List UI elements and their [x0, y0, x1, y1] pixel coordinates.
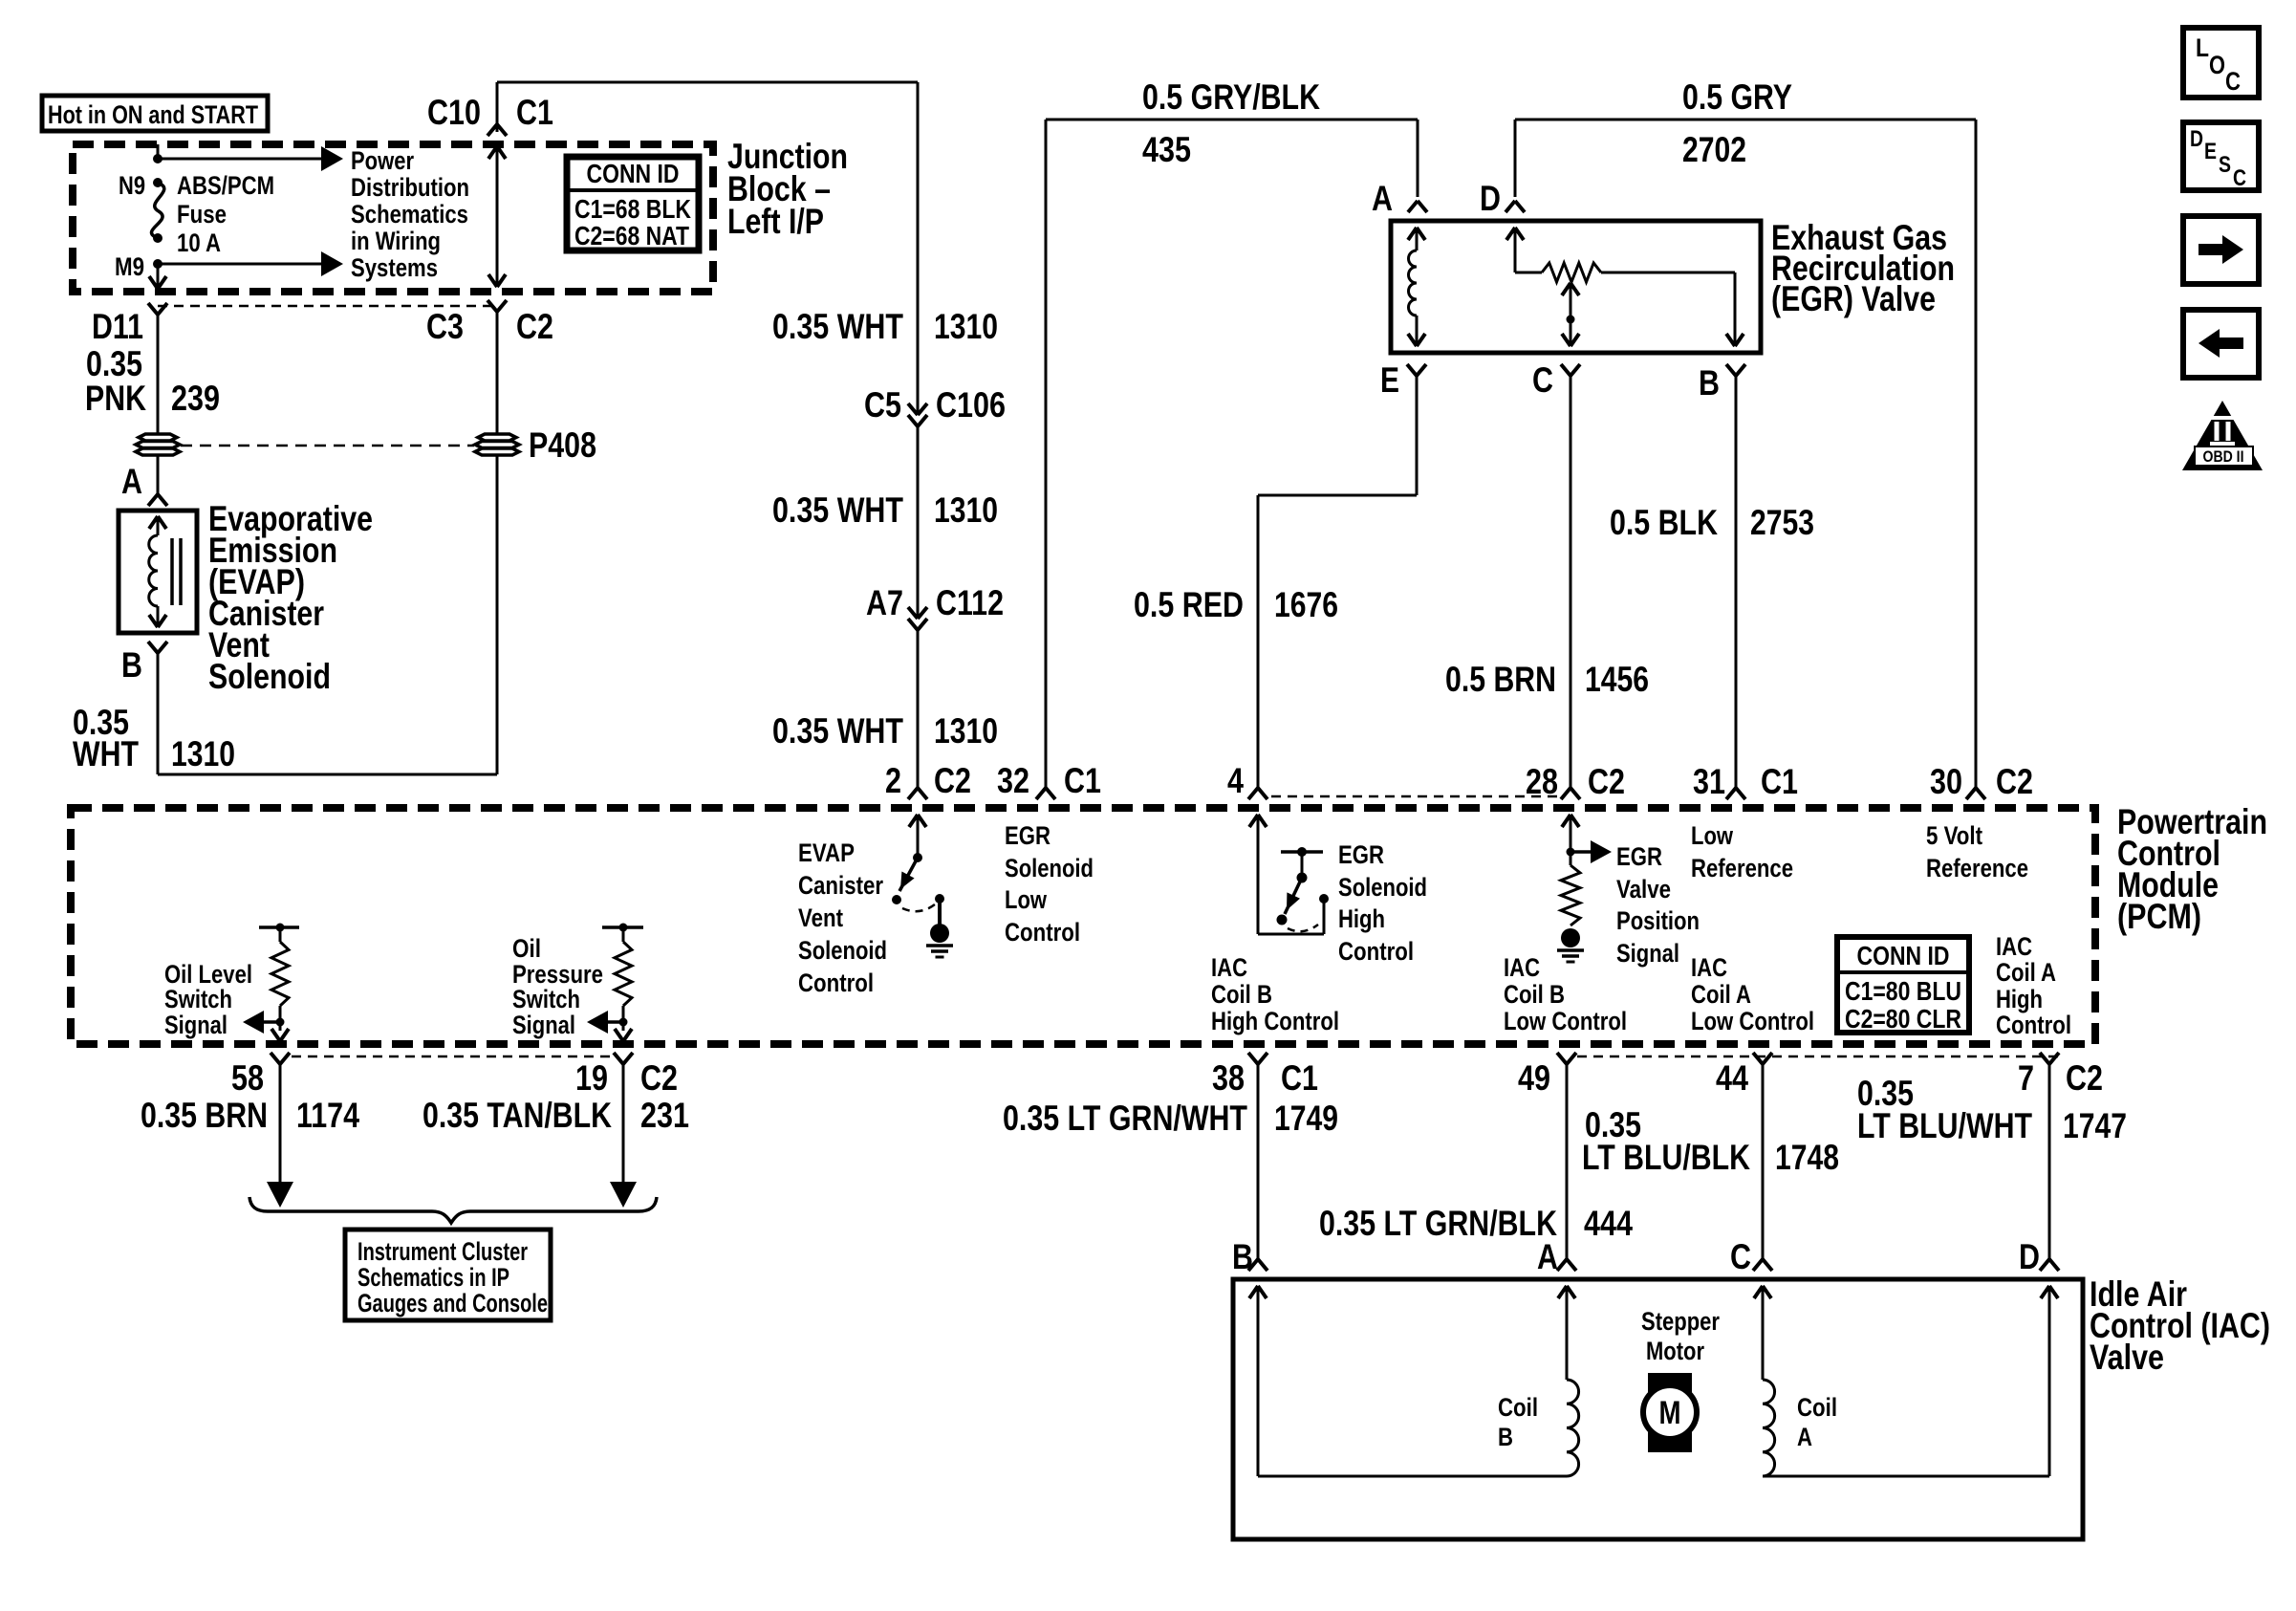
terminal E label [1380, 360, 1399, 400]
svg-text:C1: C1 [1761, 762, 1798, 801]
svg-text:1748: 1748 [1775, 1138, 1839, 1177]
PCM pin 19 labels [575, 1058, 678, 1098]
svg-text:(PCM): (PCM) [2117, 897, 2201, 936]
thin connector line pin58 to pin19 [292, 1056, 612, 1058]
svg-text:Reference: Reference [1926, 854, 2028, 882]
svg-text:P408: P408 [529, 425, 596, 465]
EVAP driver switch [892, 815, 944, 925]
wire WHT 1310 vertical (lower) [917, 630, 920, 788]
svg-text:EVAP: EVAP [798, 838, 855, 867]
label 0.5 BLK [1610, 503, 1718, 542]
label 0.5 GRY/BLK [1142, 77, 1320, 117]
svg-text:Control: Control [1996, 1011, 2071, 1039]
IAC coil B circuit [1249, 1286, 1579, 1476]
thin connector line pin49 to pin7 [1577, 1056, 2063, 1058]
terminal B (IAC) label [1232, 1237, 1253, 1276]
text Low Reference [1691, 821, 1793, 882]
terminal B label [121, 645, 142, 685]
EGR valve name [1771, 218, 1955, 318]
label 1310 (mid) [934, 490, 998, 530]
svg-text:C: C [2233, 165, 2246, 191]
svg-text:IAC: IAC [1691, 953, 1727, 982]
label Stepper Motor [1641, 1307, 1720, 1365]
label 0.35 PNK [85, 344, 146, 418]
CONN ID box (junction block) [567, 157, 699, 250]
text Power Distribution Schematics in Wiring Systems [351, 146, 469, 282]
svg-text:in Wiring: in Wiring [351, 227, 441, 255]
PCM pin 38 symbol [1248, 1053, 1267, 1064]
svg-text:Oil: Oil [512, 934, 541, 963]
svg-text:CONN ID: CONN ID [587, 159, 680, 188]
svg-text:B: B [1498, 1423, 1513, 1451]
IAC valve box [1233, 1279, 2083, 1539]
node N9 label [119, 171, 145, 200]
svg-text:PNK: PNK [85, 379, 146, 418]
svg-text:EGR: EGR [1616, 842, 1662, 871]
junction dot at fuse feed [153, 154, 162, 163]
wire WHT 1310 vertical (upper) [917, 82, 920, 415]
PCM name [2117, 802, 2267, 936]
EVAP solenoid name [208, 499, 373, 696]
wire 0.35 LT GRN/WHT 1749 [1257, 1064, 1260, 1259]
wire 0.35 PNK 239 [157, 315, 160, 434]
svg-text:1456: 1456 [1585, 660, 1649, 699]
svg-text:Stepper: Stepper [1641, 1307, 1720, 1336]
labels 0.35 BRN 1174 [141, 1096, 359, 1135]
svg-text:C106: C106 [936, 385, 1006, 425]
connector C10/C1 labels [427, 93, 553, 132]
svg-text:L: L [2196, 33, 2209, 62]
text IAC Coil A High Control [1996, 932, 2071, 1039]
label 2702 [1682, 130, 1746, 169]
svg-text:231: 231 [640, 1096, 689, 1135]
svg-text:Low: Low [1005, 885, 1048, 914]
node N9 terminal dot [153, 178, 162, 187]
terminal B (EGR) label [1699, 363, 1720, 403]
svg-text:31: 31 [1693, 762, 1725, 801]
svg-text:30: 30 [1930, 762, 1962, 801]
connector C3/C2 labels [426, 307, 553, 346]
arrow to Power Distribution (lower) [158, 251, 343, 276]
PCM pin 28 labels [1526, 762, 1625, 801]
text Oil Level Switch Signal [164, 960, 252, 1039]
svg-text:0.35 BRN: 0.35 BRN [141, 1096, 268, 1135]
svg-text:C: C [1730, 1237, 1751, 1276]
svg-text:C5: C5 [864, 385, 901, 425]
terminal B (EGR) symbol [1726, 364, 1745, 376]
svg-text:Solenoid: Solenoid [798, 936, 887, 965]
EVAP solenoid core bars [172, 538, 181, 605]
svg-text:Coil A: Coil A [1691, 980, 1751, 1009]
in-line connector A7/C112 symbol [908, 607, 927, 630]
terminal C (EGR) symbol [1561, 364, 1580, 376]
svg-text:Signal: Signal [1616, 939, 1679, 968]
text 5 Volt Reference [1926, 821, 2028, 882]
svg-text:Solenoid: Solenoid [1338, 873, 1427, 902]
svg-text:0.35 TAN/BLK: 0.35 TAN/BLK [422, 1096, 612, 1135]
label P408 [529, 425, 596, 465]
fuse ABS/PCM 10A element [151, 183, 163, 238]
svg-text:Position: Position [1616, 906, 1700, 935]
svg-text:Signal: Signal [512, 1011, 575, 1039]
note box Instrument Cluster Schematics [345, 1230, 551, 1320]
svg-text:Valve: Valve [2090, 1338, 2164, 1377]
svg-text:High: High [1338, 904, 1385, 933]
text IAC Coil B Low Control [1504, 953, 1627, 1035]
terminal D (EGR) label [1480, 179, 1501, 218]
label 0.5 RED [1134, 585, 1244, 624]
svg-text:Switch: Switch [512, 985, 580, 1013]
wire PNK to EVAP terminal A [157, 455, 160, 494]
svg-text:C1: C1 [1281, 1058, 1318, 1098]
svg-text:A7: A7 [866, 583, 903, 622]
EGR valve box [1391, 221, 1761, 353]
svg-text:Instrument Cluster: Instrument Cluster [357, 1237, 528, 1266]
svg-text:Solenoid: Solenoid [1005, 854, 1094, 882]
connector C5/C106 labels [864, 385, 1006, 425]
wire inside junction block [488, 146, 506, 287]
svg-text:2: 2 [885, 761, 901, 800]
label Coil A [1797, 1393, 1837, 1451]
svg-text:Control: Control [798, 969, 874, 997]
svg-text:Signal: Signal [164, 1011, 227, 1039]
svg-text:C1: C1 [1064, 761, 1101, 800]
labels 0.35 LT GRN/WHT 1749 [1003, 1099, 1338, 1138]
text Oil Pressure Switch Signal [512, 934, 603, 1039]
svg-text:D: D [2019, 1237, 2040, 1276]
PCM pin 2 symbol [908, 788, 927, 799]
PCM pin 4 symbol [1248, 788, 1267, 799]
svg-text:28: 28 [1526, 762, 1558, 801]
PCM pin 31 labels [1693, 762, 1798, 801]
arrow to Power Distribution (upper) [158, 146, 343, 171]
svg-text:Control: Control [1005, 918, 1080, 947]
svg-text:C1=68 BLK: C1=68 BLK [574, 194, 691, 224]
svg-text:Low Control: Low Control [1691, 1007, 1814, 1035]
wire 0.35 LT BLU/BLK 1748 [1762, 1064, 1765, 1259]
note box "Hot in ON and START" [42, 96, 268, 131]
svg-text:D: D [1480, 179, 1501, 218]
svg-text:O: O [2209, 51, 2225, 79]
connector C3/C2 symbol [487, 300, 507, 434]
svg-text:Valve: Valve [1616, 875, 1671, 903]
svg-text:C2: C2 [640, 1058, 678, 1098]
svg-text:C3: C3 [426, 307, 464, 346]
svg-text:S: S [2219, 152, 2231, 178]
EGR solenoid coil [1408, 228, 1425, 346]
svg-text:C10: C10 [427, 93, 481, 132]
svg-text:Reference: Reference [1691, 854, 1793, 882]
svg-text:0.35 LT GRN/BLK: 0.35 LT GRN/BLK [1319, 1204, 1557, 1243]
text EGR Solenoid Low Control [1005, 821, 1094, 947]
terminal A (EGR) symbol [1408, 201, 1427, 212]
label 435 [1142, 130, 1191, 169]
sidebar DESC icon [2183, 122, 2259, 191]
node M9 terminal dot [153, 259, 162, 269]
wire 0.5 BLK 2753 [1735, 376, 1738, 788]
PCM pin 38 labels [1212, 1058, 1318, 1098]
in-line connector C5/C106 symbol [908, 403, 927, 426]
svg-text:C2: C2 [516, 307, 553, 346]
EVAP canister vent solenoid box [119, 511, 197, 633]
svg-text:C2=68 NAT: C2=68 NAT [574, 221, 689, 250]
svg-text:1174: 1174 [296, 1096, 359, 1135]
svg-text:10 A: 10 A [177, 229, 221, 257]
svg-text:C2: C2 [1996, 762, 2033, 801]
PCM pin 7 symbol [2040, 1053, 2059, 1064]
labels 0.35 LT BLU/WHT 1747 [1857, 1074, 2127, 1145]
label 1310 (top) [934, 307, 998, 346]
svg-text:Hot in ON and START: Hot in ON and START [48, 100, 258, 129]
wire 0.35 WHT 1310 from B [157, 653, 160, 774]
terminal B (EVAP) symbol [148, 642, 167, 653]
label Coil B [1498, 1393, 1538, 1451]
svg-text:0.5 BLK: 0.5 BLK [1610, 503, 1718, 542]
PCM pin 58 symbol [271, 1053, 290, 1064]
svg-text:0.35: 0.35 [86, 344, 142, 383]
svg-text:C112: C112 [936, 583, 1004, 622]
junction block name label [727, 137, 848, 241]
terminal D (IAC) symbol [2040, 1259, 2059, 1271]
EGR position sensor wiper [1562, 283, 1579, 346]
wire WHT 1310 vertical (middle) [917, 426, 920, 619]
svg-text:C: C [2225, 67, 2241, 96]
terminal A (EVAP) symbol [148, 494, 167, 506]
svg-text:C2=80 CLR: C2=80 CLR [1845, 1004, 1961, 1034]
wire 0.35 LT GRN/BLK 444 [1566, 1064, 1569, 1259]
wire WHT from top elbow [496, 82, 499, 132]
svg-text:A: A [121, 462, 142, 501]
PCM pin 49 symbol [1557, 1053, 1576, 1064]
labels 0.35 LT GRN/BLK 444 [1319, 1204, 1633, 1243]
terminal A (IAC) label [1537, 1237, 1558, 1276]
EGR high driver switch [1249, 815, 1329, 934]
EVAP solenoid coil [149, 516, 166, 627]
svg-text:Motor: Motor [1646, 1337, 1704, 1365]
svg-text:Schematics: Schematics [351, 200, 468, 229]
PCM pin 44 label [1716, 1058, 1748, 1098]
svg-text:58: 58 [231, 1058, 264, 1098]
junction block dashed outline [73, 144, 713, 292]
svg-text:OBD II: OBD II [2203, 447, 2244, 466]
wire 0.5 GRY 2702 [1515, 120, 1976, 788]
wire from Hot box into junction block [157, 144, 160, 159]
svg-text:Low: Low [1691, 821, 1734, 850]
svg-text:Vent: Vent [798, 903, 843, 932]
terminal A (EGR) label [1372, 179, 1393, 218]
svg-text:Left I/P: Left I/P [727, 202, 824, 241]
connector C10/C1 symbol [487, 124, 507, 136]
svg-text:0.5 GRY/BLK: 0.5 GRY/BLK [1142, 77, 1320, 117]
PCM pin 2 labels [885, 761, 971, 800]
label 0.35 WHT (low) [772, 711, 903, 751]
PCM pin 49 label [1518, 1058, 1550, 1098]
sidebar OBD II icon [2182, 401, 2263, 470]
CONN ID box (PCM) [1837, 937, 1969, 1034]
svg-text:0.5 RED: 0.5 RED [1134, 585, 1244, 624]
svg-text:1747: 1747 [2063, 1106, 2127, 1145]
node M9 label [115, 252, 144, 281]
svg-text:0.35 WHT: 0.35 WHT [772, 307, 903, 346]
terminal A (IAC) symbol [1557, 1259, 1576, 1271]
svg-text:E: E [1380, 360, 1399, 400]
PCM pin 44 symbol [1753, 1053, 1772, 1064]
svg-text:0.35 WHT: 0.35 WHT [772, 711, 903, 751]
fuse name label ABS/PCM Fuse 10 A [177, 171, 274, 257]
wire 0.5 BRN 1456 [1570, 376, 1572, 788]
text EGR Valve Position Signal [1616, 842, 1700, 968]
terminal A label [121, 462, 142, 501]
thin connector line D11 to C3 [158, 305, 497, 308]
svg-text:B: B [121, 645, 142, 685]
svg-text:1310: 1310 [934, 307, 998, 346]
oil pressure switch sense [587, 924, 643, 1042]
sidebar forward arrow icon [2183, 216, 2259, 284]
IAC stepper motor symbol [1643, 1373, 1697, 1452]
terminal B (IAC) symbol [1248, 1259, 1267, 1271]
EGR position sensor potentiometer [1506, 228, 1744, 346]
wire 0.35 BRN 1174 [267, 1064, 293, 1208]
svg-text:C2: C2 [2066, 1058, 2103, 1098]
oil level switch sense [243, 924, 299, 1042]
svg-text:IAC: IAC [1211, 953, 1247, 982]
svg-text:(EGR) Valve: (EGR) Valve [1771, 279, 1936, 318]
wire M9 down to junction block edge [149, 264, 166, 289]
svg-text:4: 4 [1227, 761, 1244, 800]
svg-text:D: D [2190, 126, 2203, 152]
in-line connector P408 (left) [136, 434, 180, 455]
brace to instrument cluster [249, 1197, 657, 1223]
svg-text:239: 239 [171, 379, 220, 418]
fuse lower terminal dot [153, 233, 162, 243]
label 0.35 WHT (left) [73, 703, 139, 773]
svg-text:ABS/PCM: ABS/PCM [177, 171, 274, 200]
svg-text:Coil B: Coil B [1211, 980, 1272, 1009]
label 0.5 BRN [1445, 660, 1556, 699]
svg-text:C2: C2 [1588, 762, 1625, 801]
PCM pin 30 symbol [1966, 788, 1985, 799]
svg-text:High: High [1996, 985, 2043, 1013]
svg-text:WHT: WHT [73, 734, 139, 773]
svg-text:Control: Control [1338, 937, 1414, 966]
svg-text:49: 49 [1518, 1058, 1550, 1098]
label 0.35 WHT (mid) [772, 490, 903, 530]
svg-text:1310: 1310 [171, 734, 235, 773]
svg-text:EGR: EGR [1005, 821, 1051, 850]
PCM pin 31 symbol [1726, 788, 1745, 799]
svg-text:A: A [1537, 1237, 1558, 1276]
svg-text:32: 32 [997, 761, 1029, 800]
svg-text:Systems: Systems [351, 253, 438, 282]
svg-text:Distribution: Distribution [351, 173, 469, 202]
wire WHT 1310 top horizontal [497, 81, 918, 84]
text EGR Solenoid High Control [1338, 840, 1427, 966]
svg-text:1676: 1676 [1274, 585, 1338, 624]
terminal C (IAC) symbol [1753, 1259, 1772, 1271]
svg-text:B: B [1699, 363, 1720, 403]
label 0.35 WHT (top) [772, 307, 903, 346]
svg-text:C2: C2 [934, 761, 971, 800]
PCM pin 19 symbol [614, 1053, 633, 1064]
svg-text:LT BLU/BLK: LT BLU/BLK [1582, 1138, 1750, 1177]
text EVAP Canister Vent Solenoid Control [798, 838, 887, 997]
svg-text:444: 444 [1584, 1204, 1633, 1243]
ground (EVAP driver) [926, 924, 953, 957]
in-line connector P408 (right) [475, 434, 519, 455]
svg-text:5 Volt: 5 Volt [1926, 821, 1982, 850]
svg-text:Solenoid: Solenoid [208, 657, 331, 696]
label 1676 [1274, 585, 1338, 624]
sidebar LOC icon [2183, 28, 2259, 98]
svg-text:Power: Power [351, 146, 414, 175]
PCM dashed box [71, 808, 2095, 1044]
label 0.5 GRY [1682, 77, 1792, 117]
svg-text:435: 435 [1142, 130, 1191, 169]
wire 0.5 RED 1676 [1258, 376, 1417, 788]
svg-text:1310: 1310 [934, 490, 998, 530]
svg-text:0.5 GRY: 0.5 GRY [1682, 77, 1792, 117]
svg-text:0.35 LT GRN/WHT: 0.35 LT GRN/WHT [1003, 1099, 1247, 1138]
svg-text:0.35 WHT: 0.35 WHT [772, 490, 903, 530]
svg-text:B: B [1232, 1237, 1253, 1276]
terminal D (IAC) label [2019, 1237, 2040, 1276]
EGR position sense resistor [1561, 815, 1612, 925]
PCM pin 32 symbol [1036, 788, 1055, 799]
label 239 [171, 379, 220, 418]
PCM pin 58 label [231, 1058, 264, 1098]
svg-text:D11: D11 [92, 307, 143, 346]
wire 0.35 TAN/BLK 231 [610, 1064, 637, 1208]
PCM pin 28 symbol [1561, 788, 1580, 799]
wire 0.35 LT BLU/WHT 1747 [2048, 1064, 2051, 1259]
dashed pass-through link to P408 [181, 445, 474, 447]
svg-text:Coil B: Coil B [1504, 980, 1565, 1009]
svg-text:2753: 2753 [1750, 503, 1814, 542]
PCM pin 4 label [1227, 761, 1244, 800]
text IAC Coil B High Control [1211, 953, 1339, 1035]
svg-text:1749: 1749 [1274, 1099, 1338, 1138]
svg-text:LT BLU/WHT: LT BLU/WHT [1857, 1106, 2032, 1145]
svg-text:C1: C1 [516, 93, 553, 132]
svg-text:A: A [1797, 1423, 1812, 1451]
svg-text:Fuse: Fuse [177, 200, 227, 229]
labels 0.35 LT BLU/BLK 1748 [1582, 1105, 1839, 1177]
svg-text:38: 38 [1212, 1058, 1245, 1098]
svg-text:44: 44 [1716, 1058, 1748, 1098]
svg-text:Coil: Coil [1797, 1393, 1837, 1422]
svg-text:EGR: EGR [1338, 840, 1384, 869]
text IAC Coil A Low Control [1691, 953, 1814, 1035]
PCM pin 30 labels [1930, 762, 2033, 801]
PCM pin 32 labels [997, 761, 1101, 800]
svg-text:Coil A: Coil A [1996, 958, 2056, 987]
svg-text:C: C [1532, 360, 1553, 400]
svg-text:N9: N9 [119, 171, 145, 200]
wire elbow B to junction vertical [158, 455, 497, 774]
terminal D11 label [92, 307, 143, 346]
labels 0.35 TAN/BLK 231 [422, 1096, 689, 1135]
svg-text:A: A [1372, 179, 1393, 218]
svg-text:E: E [2204, 139, 2217, 164]
IAC coil A circuit [1754, 1286, 2058, 1476]
terminal C (IAC) label [1730, 1237, 1751, 1276]
connector A7/C112 labels [866, 583, 1004, 622]
svg-text:CONN ID: CONN ID [1857, 941, 1950, 970]
svg-text:Schematics in IP: Schematics in IP [357, 1263, 509, 1292]
svg-text:0.5 BRN: 0.5 BRN [1445, 660, 1556, 699]
terminal E (EGR) symbol [1407, 364, 1426, 376]
wire 0.5 GRY/BLK 435 [1046, 120, 1418, 788]
